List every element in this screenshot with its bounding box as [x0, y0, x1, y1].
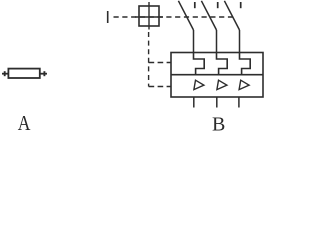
fuse A right terminal tick [43, 71, 45, 76]
thermal overload element F3 [240, 53, 251, 75]
fuse A left lead [2, 73, 9, 75]
magnetic trip triangle 2 [217, 80, 227, 89]
actuator cross vertical line [148, 2, 150, 30]
pole 2 bottom terminal stub [216, 97, 218, 108]
magnetic trip triangle 1 [194, 80, 204, 89]
magnetic trip triangle 3 [239, 80, 249, 89]
fuse A left terminal tick [4, 71, 6, 76]
pole 1 wire vertical [193, 30, 195, 53]
actuator cross horizontal line [135, 16, 163, 18]
pole 2 top terminal tick [217, 2, 219, 8]
wire dashed linkage vertical [148, 32, 150, 87]
pole 3 bottom terminal stub [238, 97, 240, 108]
pole 3 wire vertical [239, 30, 241, 53]
thermal overload element F2 [217, 53, 228, 75]
pole 1 switch blade [178, 1, 193, 30]
fuse A body rectangle [8, 69, 39, 78]
wire dashed linkage to thermal box [149, 62, 171, 64]
pole 3 top terminal tick [240, 2, 242, 8]
housing divider line [171, 74, 263, 76]
breaker B left terminal tick [107, 11, 109, 23]
pole 1 bottom terminal stub [193, 97, 195, 108]
fuse A right lead [40, 73, 47, 75]
svg-text:A: A [18, 113, 31, 133]
pole 2 wire vertical [216, 30, 218, 53]
pole 3 switch blade [224, 1, 239, 30]
pole 2 switch blade [201, 1, 216, 30]
breaker housing box [171, 53, 263, 98]
svg-text:B: B [212, 114, 225, 133]
thermal overload element F1 [194, 53, 205, 75]
wire dashed linkage to magnetic box [149, 86, 171, 88]
wire dashed trip linkage horizontal [114, 16, 236, 18]
pole 1 top terminal tick [194, 2, 196, 8]
actuator square U1 [139, 6, 159, 26]
